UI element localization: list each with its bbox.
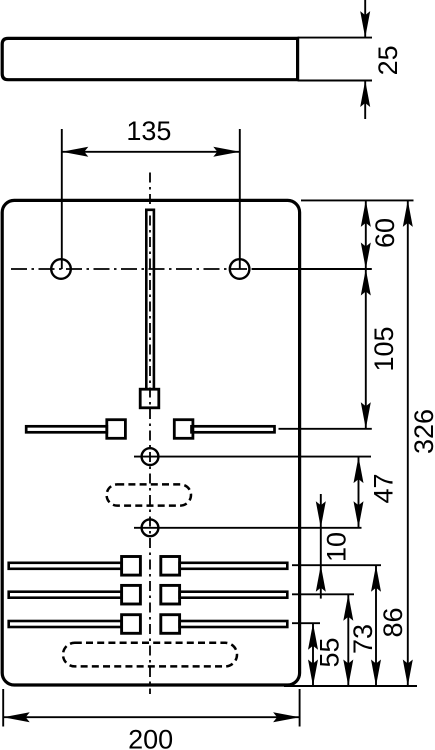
dimension 55 line	[312, 623, 314, 686]
dimension 200 arrow left	[3, 712, 30, 722]
dimension 10 upper outside arrow	[320, 494, 322, 528]
hole circle 1	[142, 448, 159, 465]
terminal row 3 right bar	[180, 621, 288, 627]
middle row right pad	[174, 420, 193, 439]
middle row left pad	[107, 420, 126, 439]
dimension 60 arrow down	[361, 243, 371, 270]
svg-text:73: 73	[348, 624, 378, 654]
dimension 105 line	[365, 269, 367, 429]
terminal row 3 left pad	[122, 615, 141, 634]
dimension 47 arrow up	[354, 457, 364, 484]
extension of plate top edge to right dims	[301, 199, 414, 201]
svg-text:47: 47	[368, 473, 398, 503]
dimension 60 line	[365, 200, 367, 269]
terminal row 3 left bar	[9, 621, 122, 627]
main plate outline	[2, 200, 299, 685]
dimension 73 arrow down	[343, 660, 353, 687]
dimension 60 arrow up	[361, 200, 371, 227]
terminal row 1 right bar	[180, 563, 288, 569]
svg-text:10: 10	[321, 532, 351, 562]
middle row left bar	[26, 426, 107, 432]
extension of plate bottom edge to right dims	[284, 685, 417, 687]
svg-text:200: 200	[128, 725, 173, 750]
terminal row 2 left pad	[122, 585, 141, 604]
side view plate outline	[2, 38, 297, 79]
dimension 25 arrow up	[360, 81, 370, 108]
horizontal centerline through mounting holes	[11, 268, 252, 270]
terminal row 2 extension line	[292, 593, 354, 595]
hole circle 2	[142, 519, 159, 536]
dimension 200 arrow right	[273, 712, 300, 722]
mounting hole right	[230, 259, 250, 279]
dimension 86 arrow up	[371, 565, 381, 592]
svg-text:60: 60	[370, 218, 400, 248]
central narrow slot	[146, 210, 154, 389]
terminal row 3 right pad	[161, 615, 180, 634]
dimension 55 arrow up	[308, 623, 318, 650]
dashed obround slot upper	[107, 484, 191, 505]
svg-text:135: 135	[126, 116, 171, 146]
dimension 25 line lower segment	[364, 81, 366, 120]
dimension 200 line	[3, 716, 299, 718]
terminal row 1 extension line	[292, 564, 381, 566]
dashed obround slot lower	[63, 643, 237, 667]
dimension 55 arrow down	[308, 660, 318, 687]
extension line bottom for dim 25	[298, 80, 372, 82]
svg-text:25: 25	[373, 45, 403, 75]
dimension 105 arrow up	[361, 269, 371, 296]
dimension 135 arrow left	[62, 147, 89, 157]
dimension 326 arrow down	[403, 660, 413, 687]
mounting hole left	[51, 259, 71, 279]
svg-text:326: 326	[409, 409, 435, 454]
extension line right for dim 135	[239, 129, 241, 269]
svg-text:55: 55	[314, 637, 344, 667]
dimension 47 arrow down	[354, 501, 364, 528]
line through circle 1	[134, 456, 371, 458]
dimension 326 arrow up	[403, 200, 413, 227]
dimension 73 line	[347, 594, 349, 686]
dimension 105 arrow down	[361, 402, 371, 429]
terminal row 2 left bar	[9, 592, 122, 598]
dimension 10 lower outside arrow	[320, 565, 322, 598]
dimension 10 line	[320, 528, 322, 565]
terminal row 3 extension line	[292, 622, 320, 624]
terminal row 2 right bar	[180, 592, 288, 598]
terminal row 1 left pad	[122, 557, 141, 576]
extension of hole centerline to right dims	[252, 268, 372, 270]
dimension 135 arrow right	[213, 147, 240, 157]
line through circle 2	[134, 527, 362, 529]
terminal row 1 right pad	[161, 557, 180, 576]
svg-text:86: 86	[378, 607, 408, 637]
extension line right for dim 200	[299, 689, 301, 727]
extension line left for dim 200	[2, 689, 4, 727]
vertical centerline	[149, 173, 151, 695]
dimension 135 line	[62, 151, 240, 153]
dimension 25 line upper segment	[364, 0, 366, 38]
extension line left for dim 135	[61, 129, 63, 269]
extension line top for dim 25	[298, 37, 372, 39]
terminal row 2 right pad	[161, 585, 180, 604]
middle row right bar	[192, 426, 275, 432]
dimension 86 arrow down	[371, 660, 381, 687]
dimension 47 line	[358, 457, 360, 528]
central slot pad	[140, 389, 159, 408]
dimension 73 arrow up	[343, 594, 353, 621]
middle row extension line	[279, 428, 372, 430]
dimension 25 arrow down	[360, 11, 370, 38]
dimension 326 line	[407, 200, 409, 686]
svg-text:105: 105	[369, 326, 399, 371]
terminal row 1 left bar	[9, 563, 122, 569]
dimension 86 line	[375, 565, 377, 686]
